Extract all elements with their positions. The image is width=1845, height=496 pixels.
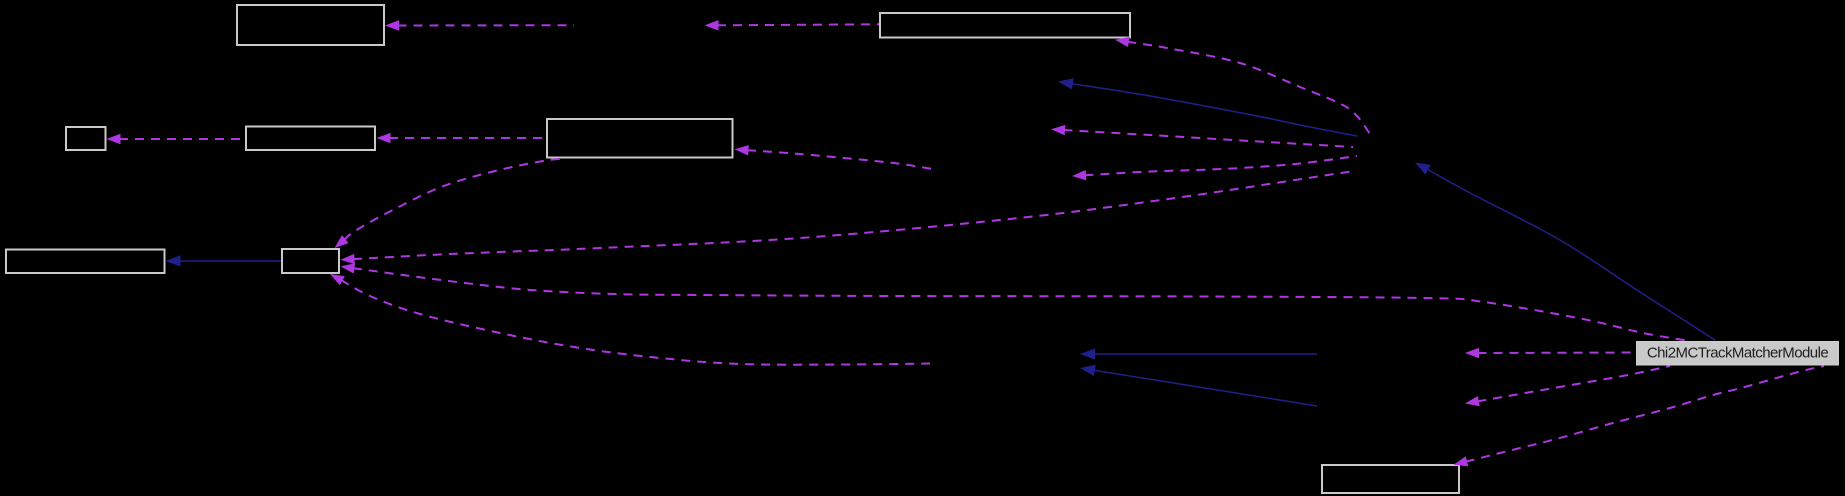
svg-text:Chi2MCTrackMatcherModule: Chi2MCTrackMatcherModule — [1647, 345, 1829, 362]
